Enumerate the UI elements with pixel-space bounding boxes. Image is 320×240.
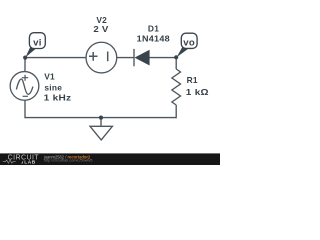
junction dot vi xyxy=(23,56,27,60)
voltage source V2 (2 V) xyxy=(86,42,117,73)
wire: vo node down to R1 xyxy=(175,58,177,69)
watermark: CircuitLab logo xyxy=(3,155,40,166)
wire: vi node to V2 xyxy=(25,57,86,59)
diode D1 xyxy=(134,49,150,66)
svg-text:2 V: 2 V xyxy=(93,24,108,34)
ground junction dot xyxy=(99,116,103,120)
node flag vo xyxy=(177,33,198,57)
wire: left rail, vi node down to V1 xyxy=(24,58,26,72)
label V2 / 2 V xyxy=(93,15,108,34)
svg-text:vo: vo xyxy=(183,38,195,49)
svg-text:LAB: LAB xyxy=(24,160,36,165)
label V1 / sine / 1 kHz xyxy=(44,71,72,102)
svg-text:V1: V1 xyxy=(44,71,55,81)
resistor R1 xyxy=(172,69,181,105)
svg-text:1 kHz: 1 kHz xyxy=(44,93,72,103)
label R1 / 1 kΩ xyxy=(186,75,209,97)
svg-text:sine: sine xyxy=(44,82,62,92)
wire: V1 down to bottom rail xyxy=(24,100,26,118)
node flag vi xyxy=(25,33,45,58)
watermark: attribution text xyxy=(43,154,93,162)
label D1 / 1N4148 xyxy=(137,24,170,44)
svg-text:R1: R1 xyxy=(187,75,198,85)
wire: bottom rail xyxy=(25,117,176,119)
svg-text:vi: vi xyxy=(33,37,42,48)
svg-text:1N4148: 1N4148 xyxy=(137,34,170,44)
svg-text:http://circuitlab.com/c/5nwtv5: http://circuitlab.com/c/5nwtv5 xyxy=(44,159,93,163)
voltage source V1 (sine) xyxy=(10,72,39,101)
junction dot vo xyxy=(174,55,178,59)
wire: R1 to bottom rail xyxy=(175,105,177,118)
watermark: bottom bar xyxy=(0,153,220,165)
svg-text:1 kΩ: 1 kΩ xyxy=(186,87,209,97)
wire: V2 to diode D1 xyxy=(117,57,134,59)
ground symbol xyxy=(90,118,112,140)
wire: diode D1 to vo node xyxy=(150,57,177,59)
svg-text:D1: D1 xyxy=(148,24,159,34)
